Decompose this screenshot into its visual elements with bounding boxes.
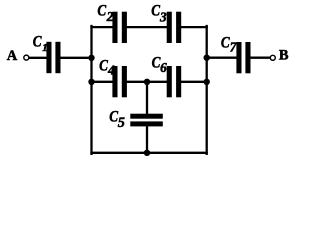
svg-text:2: 2 [106, 9, 114, 24]
svg-text:5: 5 [118, 115, 125, 131]
svg-text:C: C [33, 33, 42, 50]
svg-text:4: 4 [107, 63, 115, 78]
svg-text:1: 1 [42, 43, 47, 54]
svg-text:6: 6 [160, 60, 167, 75]
svg-text:C: C [97, 3, 106, 20]
svg-text:B: B [279, 48, 289, 64]
svg-text:A: A [7, 48, 18, 64]
svg-text:3: 3 [159, 9, 167, 24]
